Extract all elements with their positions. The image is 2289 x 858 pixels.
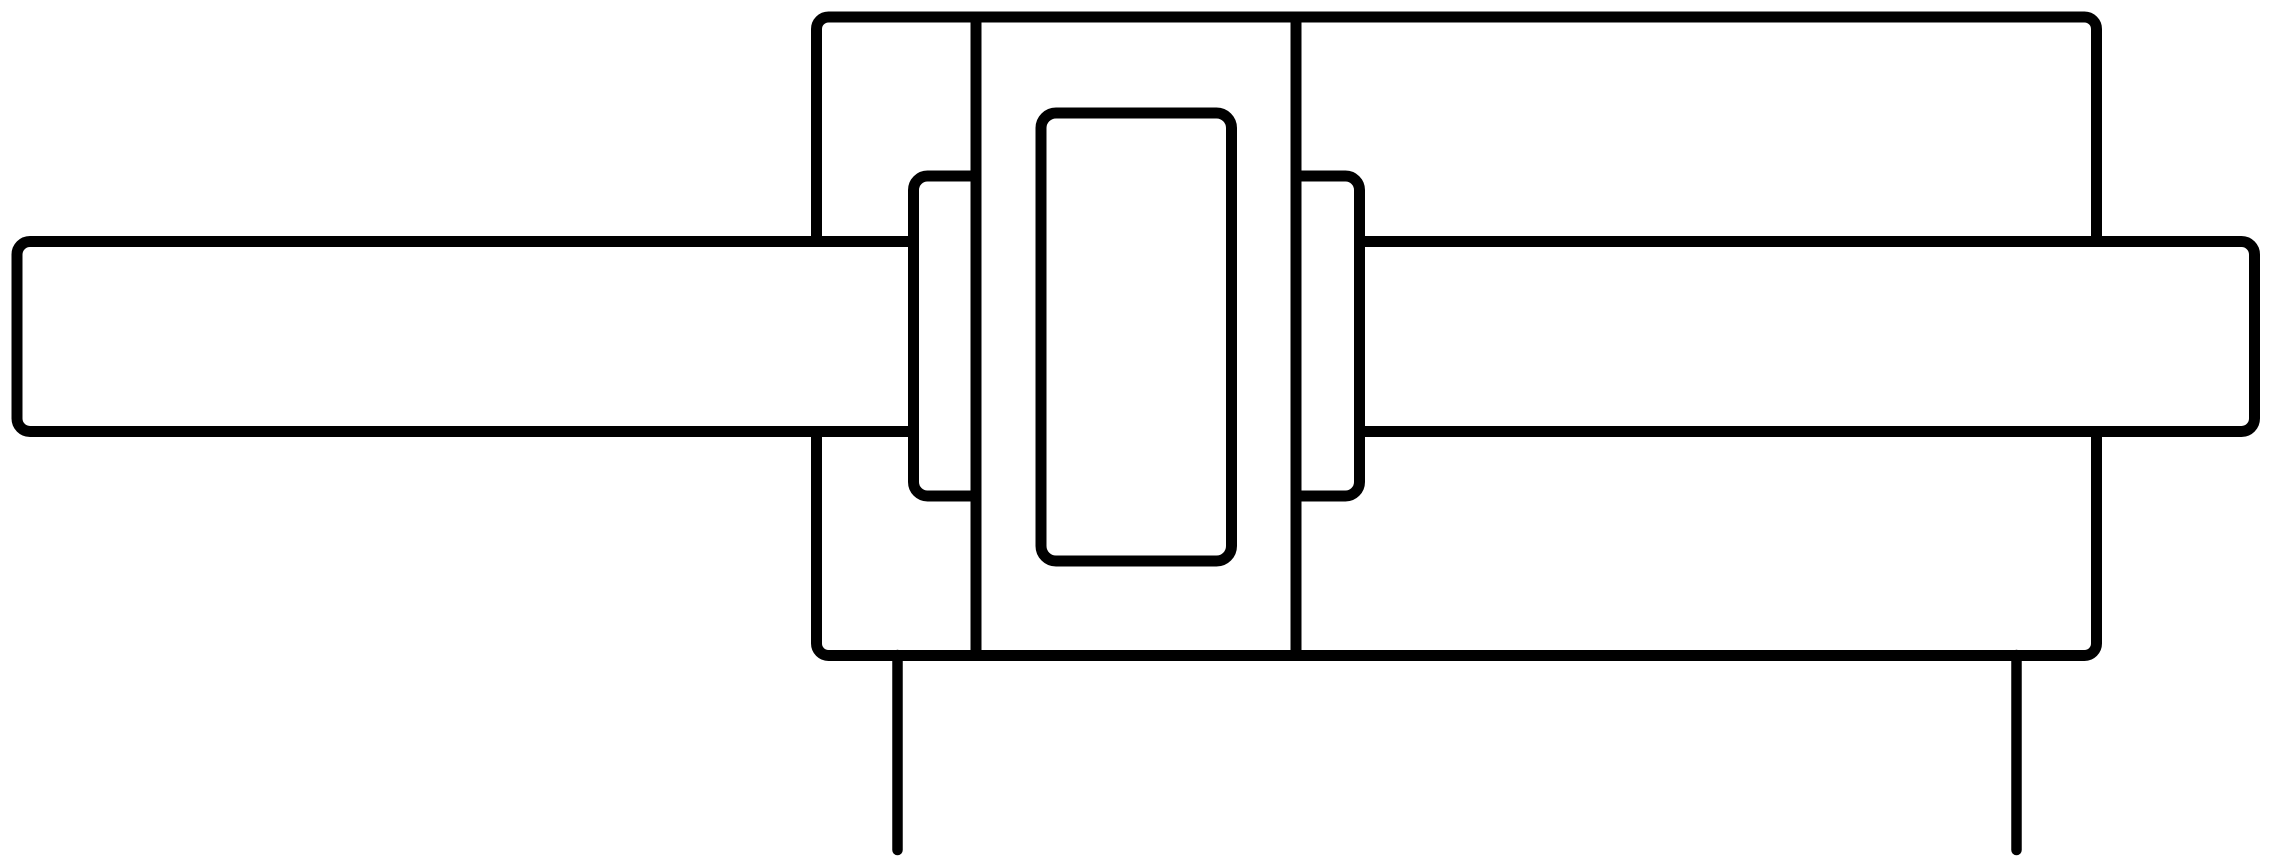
left port line bbox=[892, 655, 903, 850]
left cushion bushing bbox=[914, 176, 990, 496]
right cushion bushing bbox=[1284, 176, 1360, 496]
piston rod (double-ended, passes through barrel) bbox=[17, 242, 2255, 432]
right port line bbox=[2011, 655, 2022, 850]
piston block bbox=[976, 17, 1296, 656]
cylinder body (barrel) bbox=[817, 17, 2097, 656]
cushion sleeve on piston bbox=[1041, 113, 1232, 561]
